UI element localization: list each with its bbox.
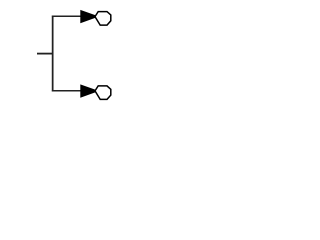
buffer U1 (top triangle): [81, 11, 95, 23]
wire: input stub: [37, 53, 53, 55]
buffer U2 (bottom triangle): [81, 85, 95, 97]
output pad P2 (bottom heptagon): [95, 86, 111, 100]
wire: top branch to buffer U1: [52, 15, 81, 17]
wire: bottom branch to buffer U2: [52, 90, 81, 92]
wire: vertical trunk: [52, 16, 54, 92]
output pad P1 (top heptagon): [95, 12, 111, 26]
